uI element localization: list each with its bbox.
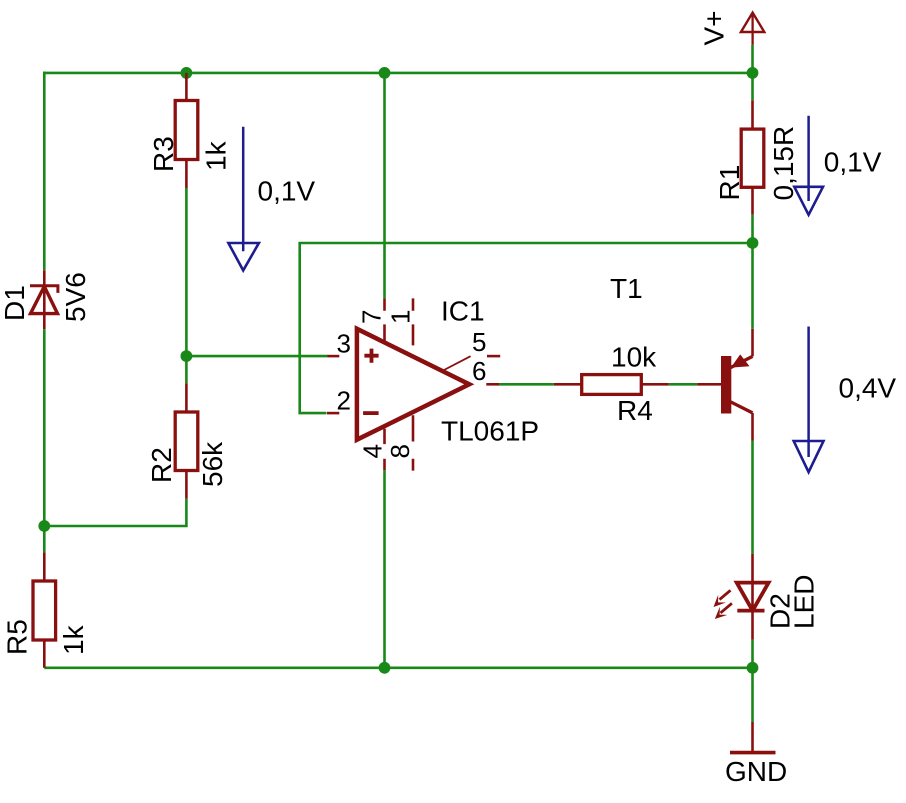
svg-text:5V6: 5V6: [60, 272, 91, 322]
wire top V+ rail: [44, 72, 752, 75]
svg-text:LED: LED: [789, 575, 820, 629]
voltage arrow 0,1V right: [794, 116, 823, 215]
IC1 minus mark: [363, 411, 379, 415]
wire node D to GND symbol: [751, 668, 754, 722]
svg-text:TL061P: TL061P: [441, 416, 539, 447]
T1 collector: [731, 402, 753, 413]
wire D2 to node D: [751, 640, 754, 668]
wire rail to R1 top: [751, 73, 754, 100]
svg-text:0,4V: 0,4V: [839, 373, 897, 404]
wire feedback net (R1 bottom node to IC1 pin 2): [300, 243, 753, 413]
svg-text:1k: 1k: [201, 140, 232, 171]
junction node at R3 top: [181, 67, 193, 79]
svg-text:GND: GND: [725, 756, 787, 787]
svg-text:IC1: IC1: [441, 296, 485, 327]
junction node C (R1 bottom / feedback): [747, 237, 759, 249]
svg-text:4: 4: [358, 444, 388, 458]
IC1 triangle body: [357, 329, 469, 440]
LED D2: [714, 554, 769, 640]
svg-text:V+: V+: [699, 10, 730, 45]
svg-text:3: 3: [337, 329, 351, 359]
wire node C to T1 emitter: [751, 243, 754, 329]
transistor T1: [697, 329, 752, 441]
IC1 pin 5 stub: [444, 356, 471, 370]
T1 base bar: [721, 356, 731, 414]
junction node at middle column top: [379, 67, 391, 79]
IC1 pin 6 stub: [486, 383, 499, 386]
junction node B (D1/R2/R5): [38, 520, 50, 532]
svg-text:R3: R3: [148, 136, 179, 172]
T1 emitter arrow: [731, 354, 750, 367]
svg-text:6: 6: [472, 356, 486, 386]
voltage arrow 0,1V left: [228, 127, 259, 271]
ground symbol GND: [730, 722, 776, 753]
voltage arrow 0,4V: [794, 327, 824, 473]
IC1 pin 3 stub: [328, 355, 340, 358]
zener diode D1: [30, 270, 58, 329]
svg-text:0,1V: 0,1V: [824, 146, 882, 177]
svg-text:1: 1: [385, 310, 415, 324]
svg-text:56k: 56k: [197, 441, 228, 487]
wire R4 to T1 base: [669, 383, 697, 386]
svg-text:10k: 10k: [611, 342, 657, 373]
junction node below V+: [747, 67, 759, 79]
svg-text:R4: R4: [617, 395, 653, 426]
wire V+ symbol to rail: [751, 45, 754, 73]
T1 emitter: [731, 356, 753, 367]
wire R3 bottom to node A: [185, 188, 188, 383]
D2 emission arrow 1: [720, 590, 731, 599]
wire bottom GND rail: [44, 666, 752, 669]
IC1 pin 8 stub: [412, 415, 415, 470]
svg-text:1k: 1k: [58, 624, 89, 655]
IC1 pin 7 stub: [383, 298, 386, 342]
resistor R4: [554, 375, 669, 395]
wire middle column top (V+ rail to IC1 pin 7): [383, 72, 386, 299]
svg-text:7: 7: [357, 310, 387, 324]
junction node D (LED/GND rail): [747, 662, 759, 674]
D2 emission arrow 2: [721, 603, 732, 613]
wire T1 collector to D2: [751, 441, 754, 554]
wire R1 bottom to node C: [751, 215, 754, 243]
IC1 pin 1 stub: [412, 298, 415, 345]
resistor R2: [175, 383, 198, 499]
wire IC1 output to R4: [499, 383, 554, 386]
svg-text:2: 2: [337, 386, 351, 416]
IC1 plus mark: [364, 349, 378, 363]
IC1 pin 2 stub: [327, 412, 339, 415]
svg-text:D1: D1: [0, 285, 30, 321]
svg-text:R2: R2: [146, 447, 177, 483]
wire R2 bottom to node B: [44, 499, 186, 526]
resistor R3: [175, 73, 198, 188]
svg-text:5: 5: [472, 327, 486, 357]
T1 base lead: [697, 383, 721, 386]
power symbol V+: [741, 13, 764, 45]
svg-text:R5: R5: [2, 619, 33, 655]
junction node A (R3/R2/pin3): [181, 350, 193, 362]
svg-text:0,1V: 0,1V: [258, 176, 316, 207]
wire left column lower (D1 to R5): [43, 329, 46, 552]
wire middle column bottom (IC1 pin 4 to GND rail): [383, 470, 386, 669]
wire node A to IC1 pin 3: [186, 355, 327, 358]
svg-text:8: 8: [385, 444, 415, 458]
svg-text:0,15R: 0,15R: [768, 126, 799, 201]
svg-text:R1: R1: [714, 165, 745, 201]
resistor R1: [741, 100, 764, 215]
junction node on GND rail: [379, 662, 391, 674]
svg-text:T1: T1: [610, 273, 643, 304]
wire left column upper (to D1): [43, 72, 46, 271]
IC1 pin 4 stub: [383, 429, 386, 471]
op-amp IC1: [327, 298, 500, 470]
resistor R5: [33, 552, 56, 668]
